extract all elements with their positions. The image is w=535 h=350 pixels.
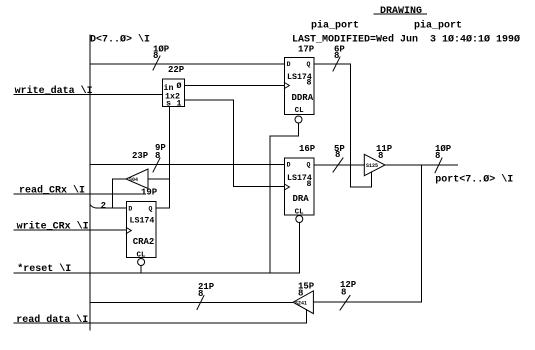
svg-text:pia_port: pia_port <box>311 20 359 32</box>
svg-text:write_CRx \I: write_CRx \I <box>17 221 89 233</box>
svg-text:S241: S241 <box>295 301 307 307</box>
svg-text:8: 8 <box>335 150 340 160</box>
svg-text:DRAWING: DRAWING <box>380 6 422 17</box>
svg-text:CRA2: CRA2 <box>133 237 155 247</box>
svg-text:23P: 23P <box>132 151 149 161</box>
svg-text:S125: S125 <box>366 163 378 169</box>
svg-text:D: D <box>287 61 291 68</box>
svg-text:1: 1 <box>177 100 182 109</box>
svg-text:LAST_MODIFIED=Wed Jun 3 1Ø:4Ø: LAST_MODIFIED=Wed Jun 3 1Ø:4Ø:1Ø 199Ø <box>292 34 520 46</box>
svg-text:Q: Q <box>149 206 153 213</box>
svg-text:write_data \I: write_data \I <box>15 85 93 97</box>
svg-text:8: 8 <box>298 289 303 299</box>
svg-text:16P: 16P <box>299 144 316 154</box>
svg-text:17P: 17P <box>298 45 315 55</box>
svg-text:22P: 22P <box>168 65 185 75</box>
svg-text:in: in <box>164 83 174 93</box>
svg-text:19P: 19P <box>141 188 158 198</box>
svg-text:8: 8 <box>198 289 203 299</box>
svg-text:DRA: DRA <box>293 194 310 204</box>
svg-text:read_data \I: read_data \I <box>16 314 88 326</box>
svg-text:pia_port: pia_port <box>414 20 462 32</box>
svg-text:LS174: LS174 <box>130 216 155 225</box>
svg-text:2: 2 <box>101 201 106 211</box>
svg-text:DDRA: DDRA <box>292 93 314 103</box>
svg-text:Q: Q <box>307 61 311 68</box>
svg-text:s: s <box>166 100 171 109</box>
svg-text:D<7..Ø> \I: D<7..Ø> \I <box>90 34 150 46</box>
svg-text:S04: S04 <box>129 177 138 183</box>
svg-text:port<7..Ø> \I: port<7..Ø> \I <box>435 174 513 186</box>
svg-text:CL: CL <box>295 107 305 115</box>
svg-text:8: 8 <box>153 51 158 61</box>
svg-text:CL: CL <box>295 209 305 217</box>
svg-text:D: D <box>287 162 291 169</box>
svg-text:8: 8 <box>155 151 160 161</box>
svg-text:D: D <box>128 206 132 213</box>
svg-text:8: 8 <box>341 288 346 298</box>
svg-text:8: 8 <box>307 180 312 189</box>
svg-text:8: 8 <box>307 79 312 88</box>
svg-text:8: 8 <box>435 151 440 161</box>
svg-text:read_CRx \I: read_CRx \I <box>19 185 85 197</box>
svg-text:*reset \I: *reset \I <box>17 263 71 275</box>
svg-text:CL: CL <box>137 252 147 260</box>
svg-text:Ø: Ø <box>177 81 182 91</box>
svg-text:Q: Q <box>307 162 311 169</box>
svg-text:8: 8 <box>378 151 383 161</box>
svg-text:8: 8 <box>334 51 339 61</box>
